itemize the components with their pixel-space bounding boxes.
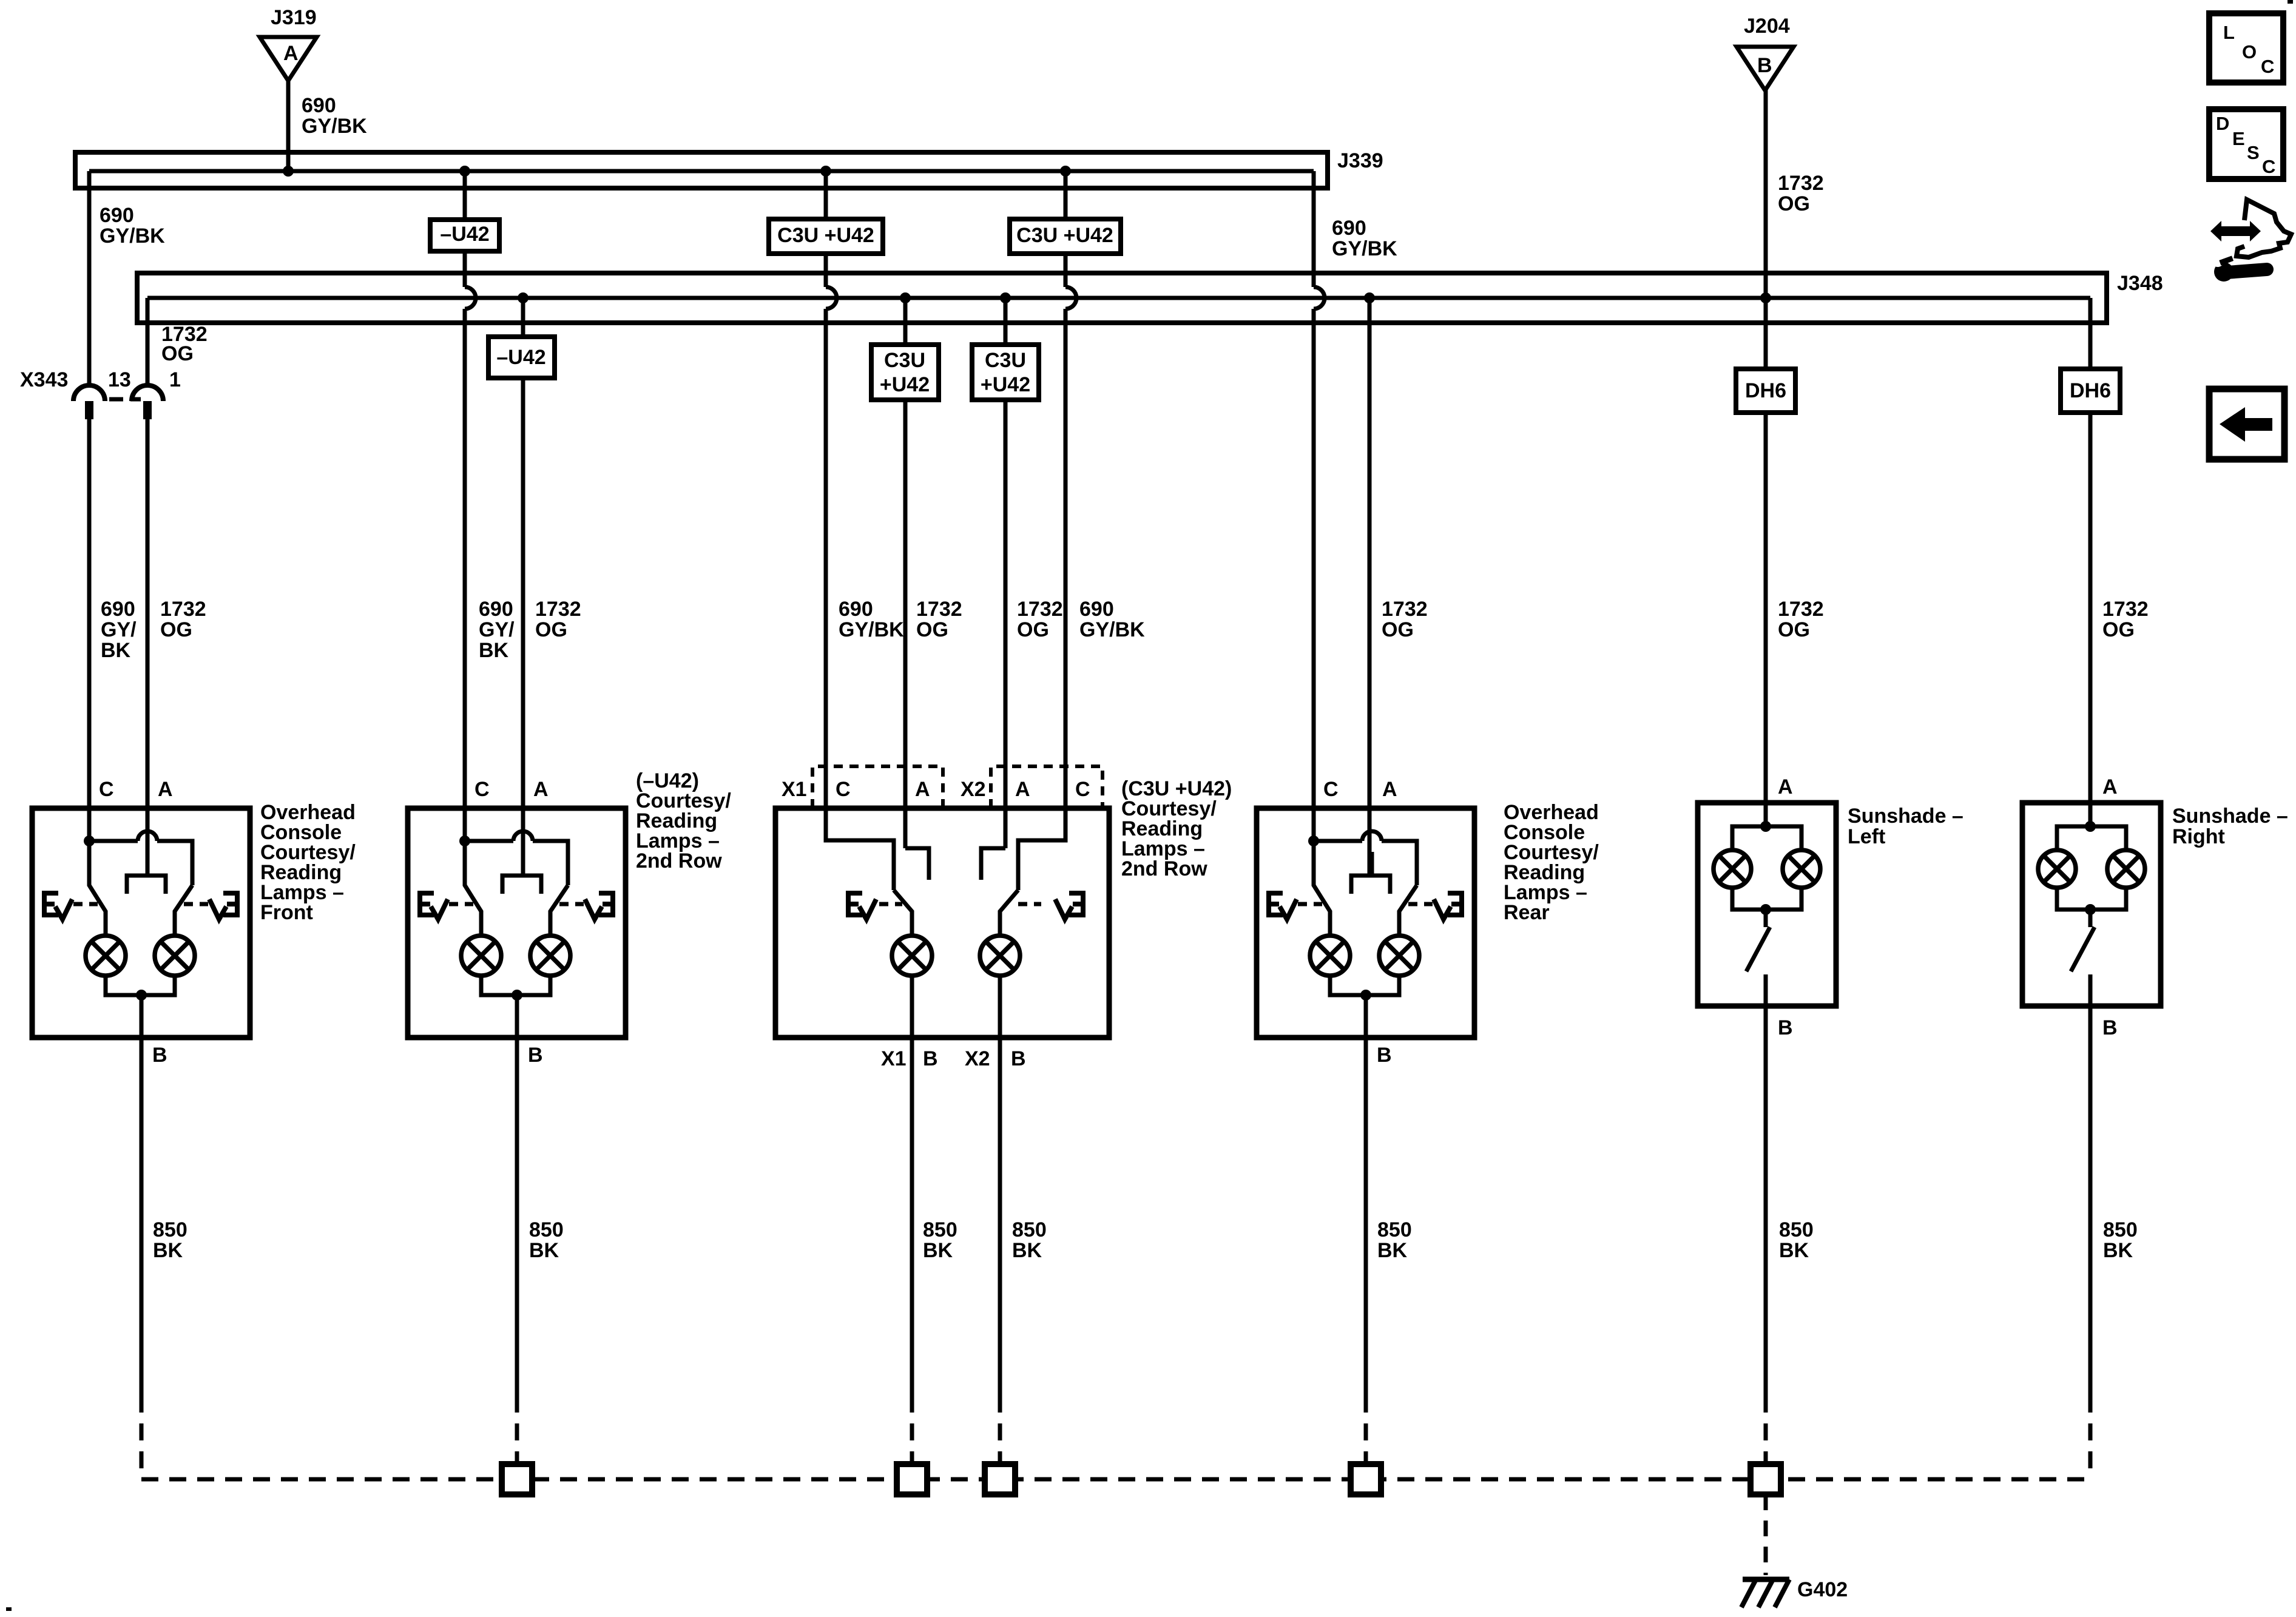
overhead console front lamps lamp A terminal staple [127, 852, 166, 894]
junction dot -U42 drop on J339 [459, 166, 470, 177]
splice pack J339 outline [75, 152, 1328, 188]
junction dot X1 A drop on J348 [900, 292, 911, 303]
sunshade left left bulb [1714, 850, 1751, 888]
svg-text:O: O [2242, 41, 2257, 62]
svg-text:+U42: +U42 [981, 373, 1030, 396]
svg-text:BK: BK [1377, 1239, 1408, 1262]
wire 690 GY/BK J339 right drop to overhead console rear lamps (hop over J348) [1314, 171, 1325, 841]
overhead console rear lamps right switch blade [1399, 885, 1417, 936]
ground splice sunshade left / G402 tap [1751, 1464, 1781, 1494]
2nd row (C3U +U42) lamps component box [775, 808, 1109, 1038]
svg-text:OG: OG [161, 342, 194, 365]
svg-text:850: 850 [153, 1218, 187, 1241]
sidebar DESC button [2209, 109, 2283, 179]
2nd row (-U42) lamps right switch actuator dashes [559, 902, 584, 906]
sidebar icon double arrow [2210, 221, 2261, 241]
overhead console front lamps right switch actuator dashes [184, 902, 208, 906]
wire 850 BK rear lamps B [1364, 995, 1368, 1396]
option box -U42 upper [430, 220, 499, 251]
svg-text:B: B [1757, 54, 1772, 77]
svg-text:Right: Right [2172, 825, 2225, 848]
junction dot X1 C drop on J339 [820, 166, 831, 177]
svg-text:A: A [915, 778, 930, 801]
overhead console rear lamps right switch actuator dashes [1408, 902, 1433, 906]
junction dot J319 wire on J339 [283, 166, 294, 177]
ground symbol G402 [1743, 1577, 1789, 1582]
svg-text:B: B [152, 1044, 167, 1067]
overhead console rear lamps right bulb [1379, 936, 1419, 976]
sidebar LOC button [2209, 13, 2283, 83]
svg-text:L: L [2223, 22, 2235, 43]
svg-text:OG: OG [1778, 192, 1810, 215]
sidebar back button [2209, 389, 2284, 459]
svg-text:690: 690 [100, 204, 134, 227]
wire 1732 OG J348 left drop to connector X343 pin 1 [146, 298, 150, 385]
sunshade right junction on A input [2085, 821, 2096, 832]
connector X343 pin 13 terminals [73, 385, 105, 401]
svg-text:1732: 1732 [2102, 598, 2149, 621]
svg-text:OG: OG [1382, 618, 1414, 641]
svg-text:1732: 1732 [160, 598, 206, 621]
wire 690 GY/BK X343 pin 13 to front lamps C [87, 419, 92, 841]
overhead console rear lamps right actuator symbol [1448, 893, 1462, 915]
overhead console front lamps internal wire C to right switch (hop over A) [89, 841, 192, 885]
svg-text:–U42: –U42 [440, 223, 489, 246]
svg-text:GY/BK: GY/BK [302, 115, 367, 138]
2nd row (-U42) lamps right actuator symbol [599, 893, 613, 915]
X1 actuator symbol [848, 893, 862, 915]
svg-text:A: A [158, 778, 173, 801]
svg-text:GY/BK: GY/BK [1332, 237, 1397, 260]
junction dot J204 wire on J348 [1760, 292, 1771, 303]
svg-text:GY/BK: GY/BK [839, 618, 904, 641]
junction dot X2 A drop on J348 [1000, 292, 1011, 303]
wire 690 GY/BK J339 to 2nd row lamps (-U42) (hop over J348) [465, 171, 476, 841]
2nd row (-U42) lamps bulb return wires to B junction [481, 976, 550, 995]
svg-text:690: 690 [302, 94, 336, 117]
overhead console front lamps left switch branch [89, 841, 106, 936]
svg-text:BK: BK [153, 1239, 183, 1262]
svg-text:+U42: +U42 [880, 373, 930, 396]
wire 690 GY/BK from J319 to splice pack J339 [286, 81, 291, 171]
2nd row (-U42) lamps component box [408, 808, 626, 1038]
X1 unit C wire to switch [826, 808, 894, 890]
circuit reference triangle J319 [260, 37, 317, 81]
svg-text:X2: X2 [965, 1047, 990, 1070]
sunshade left right bulb [1783, 850, 1820, 888]
svg-text:850: 850 [1779, 1218, 1814, 1241]
connector box DH6 right [2061, 369, 2120, 413]
svg-text:DH6: DH6 [1745, 379, 1786, 402]
junction dot X2 C drop on J339 [1060, 166, 1071, 177]
svg-text:B: B [528, 1044, 543, 1067]
dashed connector outline X1 [812, 766, 943, 808]
svg-text:X1: X1 [782, 778, 807, 801]
sunshade right left bulb [2038, 850, 2076, 888]
svg-text:Sunshade –: Sunshade – [2172, 805, 2288, 828]
svg-text:BK: BK [923, 1239, 953, 1262]
svg-text:1732: 1732 [1017, 598, 1063, 621]
svg-text:1732: 1732 [916, 598, 962, 621]
X2 unit bulb [980, 936, 1020, 976]
overhead console front lamps right actuator symbol [223, 893, 237, 915]
svg-text:BK: BK [479, 639, 509, 662]
svg-text:BK: BK [2103, 1239, 2133, 1262]
X2 unit switch blade [1000, 890, 1018, 936]
connector X343 pin 1 terminals [132, 385, 163, 401]
sunshade right lamp bracket bottom to junction [2057, 888, 2126, 910]
ground distribution dashed bus [141, 1477, 2090, 1482]
connector box DH6 left [1736, 369, 1795, 413]
wire 850 BK front lamps B [140, 995, 144, 1396]
wire 1732 OG J348 to 2nd row lamps (-U42) A [521, 298, 525, 876]
svg-text:D: D [2216, 113, 2229, 134]
svg-text:1732: 1732 [1778, 598, 1824, 621]
overhead console rear lamps left switch actuator dashes [1298, 902, 1322, 906]
svg-text:690: 690 [479, 598, 513, 621]
svg-text:B: B [1778, 1016, 1793, 1039]
wire 1732 OG X343 pin 1 to front lamps A [146, 419, 150, 876]
svg-text:S: S [2247, 142, 2260, 163]
svg-text:C: C [99, 778, 114, 801]
option box C3U +U42 lower left [871, 345, 939, 400]
X1 actuator dashes [879, 902, 902, 906]
connector X343 dashed link [109, 397, 141, 402]
overhead console front lamps internal junction on C input [84, 836, 95, 846]
dashed ground lead X2 [998, 1396, 1002, 1461]
svg-text:A: A [2102, 775, 2118, 798]
2nd row (-U42) lamps left switch actuator dashes [449, 902, 473, 906]
wire 1732 OG J348 to 2nd row lamps X2 A [1004, 298, 1008, 848]
svg-text:Rear: Rear [1504, 901, 1550, 924]
sunshade left switch fixed contact to B [1764, 974, 1768, 1396]
sunshade right switch fixed contact to B [2088, 974, 2093, 1396]
overhead console front lamps left bulb [86, 936, 126, 976]
wire 1732 OG from J204 through J348 and DH6 to sunshade left [1764, 90, 1768, 826]
2nd row (-U42) lamps left actuator symbol [420, 893, 434, 915]
overhead console rear lamps lamp A terminal staple [1351, 852, 1390, 894]
X1 unit A terminal hook [905, 848, 929, 880]
svg-text:J204: J204 [1744, 15, 1790, 38]
junction dot rear lamps A drop on J348 [1364, 292, 1375, 303]
option box C3U +U42 upper right [1010, 219, 1121, 254]
svg-text:J348: J348 [2117, 272, 2163, 295]
svg-text:G402: G402 [1797, 1578, 1848, 1601]
svg-text:Sunshade –: Sunshade – [1848, 805, 1963, 828]
dashed ground lead X1 [910, 1396, 914, 1461]
svg-text:C: C [2262, 156, 2275, 177]
svg-text:GY/: GY/ [479, 618, 515, 641]
dashed lead to ground G402 [1764, 1494, 1768, 1575]
svg-text:C3U +U42: C3U +U42 [777, 224, 874, 247]
svg-text:C: C [2261, 56, 2274, 77]
page corner mark top right [2288, 0, 2293, 4]
svg-text:690: 690 [1079, 598, 1114, 621]
svg-text:X1: X1 [881, 1047, 907, 1070]
svg-text:OG: OG [2102, 618, 2135, 641]
splice pack J348 outline [137, 273, 2107, 323]
svg-text:BK: BK [101, 639, 131, 662]
splice pack J339 internal bus wire [89, 169, 1314, 174]
svg-text:C: C [1075, 778, 1090, 801]
ground splice X1 [897, 1464, 927, 1494]
dashed ground lead front lamps [140, 1396, 144, 1479]
svg-text:A: A [1382, 778, 1397, 801]
svg-text:OG: OG [1017, 618, 1049, 641]
svg-text:A: A [1015, 778, 1030, 801]
dashed connector outline X2 [991, 766, 1102, 808]
X1 unit bulb [892, 936, 932, 976]
svg-text:GY/: GY/ [101, 618, 137, 641]
svg-text:C3U: C3U [985, 349, 1026, 372]
svg-text:BK: BK [529, 1239, 559, 1262]
svg-text:X343: X343 [20, 368, 68, 391]
sunshade right right bulb [2107, 850, 2145, 888]
sunshade left junction on A input [1760, 821, 1771, 832]
svg-text:13: 13 [108, 368, 131, 391]
X2 unit C wire to switch [1018, 808, 1065, 890]
svg-text:J319: J319 [271, 6, 317, 29]
2nd row (-U42) lamps left bulb [461, 936, 501, 976]
svg-text:850: 850 [2103, 1218, 2138, 1241]
svg-text:GY/BK: GY/BK [1079, 618, 1145, 641]
overhead console rear lamps bulb return wires to B junction [1330, 976, 1399, 995]
wire 690 GY/BK J339 left drop to connector X343 pin 13 [87, 171, 92, 385]
svg-text:B: B [1377, 1044, 1392, 1067]
svg-text:690: 690 [839, 598, 873, 621]
svg-text:C3U: C3U [884, 349, 925, 372]
svg-text:850: 850 [1377, 1218, 1412, 1241]
sunshade left switch stub and blade [1764, 910, 1768, 927]
overhead console front lamps left switch actuator dashes [73, 902, 98, 906]
svg-text:850: 850 [923, 1218, 957, 1241]
wire 690 GY/BK J339 to 2nd row lamps X1 C (hop over J348) [826, 171, 837, 840]
svg-text:1732: 1732 [535, 598, 581, 621]
wire 1732 OG J348 to overhead console rear lamps A [1368, 298, 1372, 876]
overhead console front lamps component box [32, 808, 250, 1038]
overhead console front lamps bulb return wires to B junction [106, 976, 175, 995]
overhead console rear lamps left actuator symbol [1269, 893, 1283, 915]
svg-text:2nd Row: 2nd Row [1121, 857, 1207, 880]
overhead console rear lamps internal junction on C input [1308, 836, 1319, 846]
wire 850 BK 2nd row (-U42) lamps B [515, 995, 519, 1396]
svg-text:C: C [474, 778, 490, 801]
overhead console rear lamps component box [1257, 808, 1474, 1038]
overhead console rear lamps left bulb [1310, 936, 1350, 976]
svg-text:690: 690 [101, 598, 135, 621]
svg-text:C: C [836, 778, 851, 801]
svg-text:1732: 1732 [1778, 172, 1824, 195]
svg-text:OG: OG [916, 618, 948, 641]
svg-text:A: A [533, 778, 549, 801]
wire 1732 OG J348 right drop through DH6 to sunshade right [2088, 298, 2093, 826]
overhead console front lamps left actuator symbol [44, 893, 58, 915]
svg-text:J339: J339 [1337, 149, 1383, 172]
svg-text:B: B [2102, 1016, 2118, 1039]
page corner mark bottom left [6, 1607, 12, 1611]
ground splice rear lamps [1351, 1464, 1381, 1494]
circuit reference triangle J204 [1737, 47, 1794, 90]
sunshade left lamp bracket bottom to junction [1732, 888, 1801, 910]
svg-text:1732: 1732 [1382, 598, 1428, 621]
wire 850 BK 2nd row lamps X2 B [998, 976, 1002, 1396]
ground splice 2nd row (-U42) [502, 1464, 532, 1494]
svg-text:OG: OG [535, 618, 567, 641]
2nd row (-U42) lamps left switch branch [465, 841, 481, 936]
wire 690 GY/BK J339 to 2nd row lamps X2 C (hop over J348) [1065, 171, 1076, 840]
svg-text:C3U +U42: C3U +U42 [1016, 224, 1113, 247]
svg-text:B: B [923, 1047, 938, 1070]
svg-text:OG: OG [1778, 618, 1810, 641]
wire 850 BK 2nd row lamps X1 B [910, 976, 914, 1396]
wire 1732 OG J348 to 2nd row lamps X1 A [903, 298, 908, 848]
sunshade right switch stub and blade [2088, 910, 2093, 927]
sidebar icon wrench [2214, 262, 2234, 282]
sidebar connector end view icon outline [2237, 200, 2291, 257]
svg-text:Left: Left [1848, 825, 1885, 848]
option box C3U +U42 upper left [769, 219, 883, 254]
svg-text:690: 690 [1332, 217, 1366, 240]
overhead console front lamps right bulb [155, 936, 195, 976]
svg-text:X2: X2 [961, 778, 986, 801]
svg-text:–U42: –U42 [496, 346, 545, 369]
svg-text:B: B [1011, 1047, 1026, 1070]
svg-text:GY/BK: GY/BK [100, 224, 165, 248]
2nd row (-U42) lamps internal wire C to right switch (hop over A) [465, 841, 568, 885]
svg-text:E: E [2232, 128, 2245, 149]
svg-text:2nd Row: 2nd Row [636, 849, 722, 873]
svg-text:DH6: DH6 [2070, 379, 2111, 402]
junction dot -U42 A drop on J348 [518, 292, 528, 303]
sunshade left lamp parallel bracket top [1732, 826, 1801, 850]
svg-text:850: 850 [1012, 1218, 1047, 1241]
2nd row (-U42) lamps internal junction on C input [459, 836, 470, 846]
svg-text:OG: OG [160, 618, 192, 641]
svg-text:BK: BK [1012, 1239, 1042, 1262]
dashed ground lead 2nd row (-U42) lamps [515, 1396, 519, 1461]
svg-text:A: A [1778, 775, 1793, 798]
overhead console front lamps right switch blade [175, 885, 192, 936]
svg-text:Front: Front [260, 901, 313, 924]
splice pack J348 internal bus wire [147, 296, 2090, 300]
sunshade right component box [2022, 803, 2161, 1006]
2nd row (-U42) lamps right switch blade [550, 885, 568, 936]
X1 unit switch blade [894, 890, 912, 936]
2nd row (-U42) lamps lamp A terminal staple [502, 852, 541, 894]
svg-text:BK: BK [1779, 1239, 1809, 1262]
option box C3U +U42 lower right [972, 345, 1039, 400]
X2 actuator dashes [1018, 902, 1041, 906]
dashed ground lead sunshade right [2088, 1396, 2093, 1479]
ground splice X2 [985, 1464, 1015, 1494]
X2 unit A terminal hook [981, 848, 1005, 880]
svg-text:1: 1 [169, 368, 181, 391]
overhead console rear lamps internal wire C to right switch (hop over A) [1314, 841, 1417, 885]
sunshade right lamp parallel bracket top [2057, 826, 2126, 850]
dashed ground lead rear lamps [1364, 1396, 1368, 1461]
svg-text:A: A [283, 42, 299, 65]
sunshade left component box [1698, 803, 1836, 1006]
dashed ground lead sunshade left [1764, 1396, 1768, 1461]
2nd row (-U42) lamps right bulb [530, 936, 570, 976]
svg-text:850: 850 [529, 1218, 564, 1241]
option box -U42 lower [488, 337, 555, 378]
svg-text:C: C [1323, 778, 1339, 801]
X2 actuator symbol [1069, 893, 1083, 915]
overhead console rear lamps left switch branch [1314, 841, 1330, 936]
